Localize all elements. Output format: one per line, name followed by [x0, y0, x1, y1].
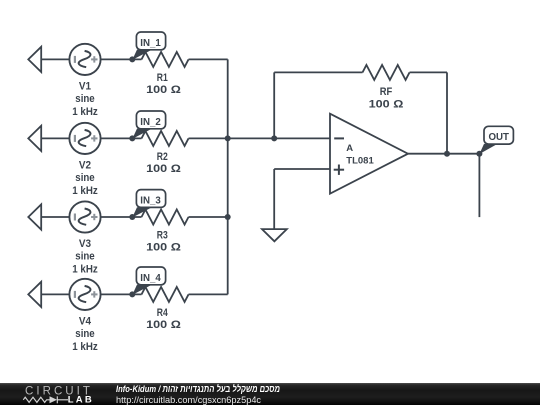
svg-text:R2: R2 — [157, 151, 168, 163]
ground (rotated, pointing left) at V3 — [28, 204, 41, 229]
ground (rotated, pointing left) at V1 — [28, 47, 41, 72]
V2 value labels — [72, 159, 98, 196]
svg-text:V1: V1 — [79, 80, 91, 92]
sine source V2 — [69, 123, 100, 154]
svg-text:sine: sine — [75, 93, 94, 105]
R4 value labels — [146, 307, 181, 331]
svg-text:R1: R1 — [157, 72, 168, 84]
svg-text:sine: sine — [75, 328, 94, 340]
wire: non-inverting input left — [274, 168, 330, 170]
svg-text:1 kHz: 1 kHz — [72, 263, 98, 275]
ground at op-amp non-inverting input — [262, 229, 287, 241]
sine source V4 — [69, 279, 100, 310]
resistor R4 — [142, 287, 189, 302]
svg-text:1 kHz: 1 kHz — [72, 185, 98, 197]
svg-text:V3: V3 — [79, 238, 91, 250]
svg-text:RF: RF — [380, 86, 393, 98]
svg-text:V4: V4 — [79, 315, 92, 327]
R2 value labels — [146, 151, 181, 175]
junction dot OUT node — [476, 151, 482, 157]
resistor R1 — [142, 52, 189, 67]
junction dot at IN_3 node — [129, 214, 135, 220]
junction dot at IN_4 node — [129, 291, 135, 297]
wire: R1 to bus — [189, 58, 228, 60]
svg-text:IN_1: IN_1 — [140, 37, 161, 49]
wire: op-amp output — [408, 153, 479, 155]
svg-text:IN_2: IN_2 — [140, 116, 161, 128]
wire: ground to V1 — [41, 58, 69, 60]
svg-text:A: A — [346, 143, 353, 154]
node IN_3 flag — [132, 190, 165, 218]
wire: R3 to bus — [189, 216, 228, 218]
wire: feedback top left segment — [274, 71, 362, 73]
node OUT flag — [479, 126, 513, 154]
junction dot bus/row3 — [225, 214, 231, 220]
svg-text:1 kHz: 1 kHz — [72, 106, 98, 118]
resistor RF — [363, 65, 410, 80]
op-amp A TL081 — [330, 114, 408, 194]
ground (rotated, pointing left) at V2 — [28, 126, 41, 151]
svg-text:sine: sine — [75, 251, 94, 263]
wire: feedback up — [273, 72, 275, 138]
junction dot RF/output — [444, 151, 450, 157]
svg-text:100 Ω: 100 Ω — [146, 84, 181, 96]
V3 value labels — [72, 238, 98, 275]
ground (rotated, pointing left) at V4 — [28, 282, 41, 307]
wire: non-inverting input down to ground — [273, 169, 275, 229]
wire: ground to V3 — [41, 216, 69, 218]
junction dot at IN_2 node — [129, 135, 135, 141]
svg-text:R3: R3 — [157, 230, 168, 242]
wire: ground to V4 — [41, 293, 69, 295]
junction dot at IN_1 node — [129, 56, 135, 62]
wire: V4 to R4 — [101, 293, 142, 295]
RF value labels — [369, 86, 404, 111]
R3 value labels — [146, 230, 181, 254]
junction dot feedback tap — [271, 135, 277, 141]
node IN_2 flag — [132, 111, 165, 139]
svg-text:IN_4: IN_4 — [140, 272, 161, 284]
wire: summing bus vertical — [227, 59, 229, 294]
svg-text:LAB: LAB — [68, 395, 94, 405]
node IN_4 flag — [132, 267, 165, 295]
svg-text:IN_3: IN_3 — [140, 194, 161, 206]
V4 value labels — [72, 315, 98, 352]
sine source V3 — [69, 201, 100, 232]
CircuitLab logo — [0, 383, 100, 405]
wire: V1 to R1 — [101, 58, 142, 60]
wire: R4 to bus — [189, 293, 228, 295]
schematic URL — [116, 395, 261, 405]
sine source V1 — [69, 44, 100, 75]
resistor R3 — [142, 210, 189, 225]
wire: V3 to R3 — [101, 216, 142, 218]
svg-text:TL081: TL081 — [346, 156, 374, 167]
svg-text:1 kHz: 1 kHz — [72, 341, 98, 353]
R1 value labels — [146, 72, 181, 96]
svg-text:100 Ω: 100 Ω — [146, 242, 181, 254]
svg-text:100 Ω: 100 Ω — [146, 319, 181, 331]
wire: feedback top right segment — [410, 71, 448, 73]
V1 value labels — [72, 80, 98, 117]
svg-text:sine: sine — [75, 172, 94, 184]
schematic title (Hebrew) — [116, 385, 280, 395]
svg-text:R4: R4 — [157, 307, 169, 319]
wire: output stub down — [478, 154, 480, 217]
svg-text:100 Ω: 100 Ω — [369, 99, 404, 111]
node IN_1 flag — [132, 32, 165, 60]
footer bar — [0, 383, 540, 405]
wire: R2 to op-amp inverting input — [189, 137, 331, 139]
resistor R2 — [142, 131, 189, 146]
svg-text:100 Ω: 100 Ω — [146, 163, 181, 175]
svg-text:V2: V2 — [79, 159, 91, 171]
svg-text:OUT: OUT — [488, 131, 509, 143]
junction dot bus/row2 — [225, 135, 231, 141]
wire: ground to V2 — [41, 137, 69, 139]
wire: feedback down to output — [446, 72, 448, 153]
wire: V2 to R2 — [101, 137, 142, 139]
